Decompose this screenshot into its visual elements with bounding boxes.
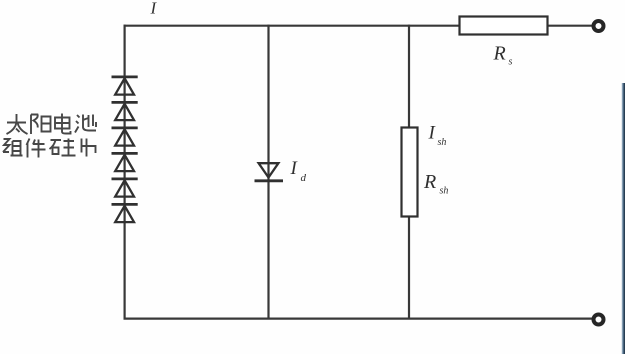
label solar-cell text line1: 太阳电池 (7, 114, 97, 135)
wire right branch lower (408, 216, 410, 319)
wire middle vertical (267, 25, 269, 319)
char 阳 (31, 115, 51, 135)
char 太 (7, 114, 28, 134)
label solar-cell text line2: 组件硅片 (3, 139, 96, 158)
char 硅 (50, 139, 76, 157)
diode D5 (solar cell chain) (112, 179, 138, 197)
diode D1 (solar cell chain) (112, 77, 138, 95)
resistor Rsh (shunt, vertical) (402, 128, 418, 217)
wire bottom horizontal (124, 318, 593, 320)
svg-text:R: R (493, 43, 506, 65)
wire right branch upper (408, 25, 410, 128)
wire left vertical (123, 25, 125, 320)
diode D2 (solar cell chain) (112, 102, 138, 120)
char 电 (55, 114, 71, 134)
char 组 (3, 139, 23, 156)
terminal bottom-right (594, 315, 604, 325)
svg-text:sh: sh (440, 186, 449, 197)
diode D3 (solar cell chain) (112, 128, 138, 146)
resistor Rs (series, horizontal) (460, 17, 548, 35)
char 件 (27, 139, 46, 158)
svg-text:d: d (301, 172, 307, 184)
wire resistor Rs to terminal (548, 25, 592, 27)
diode D6 (solar cell chain) (112, 204, 138, 222)
diode D7 (junction diode, middle branch) (255, 163, 284, 181)
svg-text:s: s (509, 57, 513, 68)
svg-text:R: R (423, 171, 436, 193)
char 池 (75, 115, 96, 133)
svg-text:sh: sh (438, 137, 447, 148)
wire top horizontal (124, 25, 460, 27)
char 片 (82, 139, 96, 157)
diode D4 (solar cell chain) (112, 153, 138, 171)
terminal top-right (594, 21, 604, 31)
